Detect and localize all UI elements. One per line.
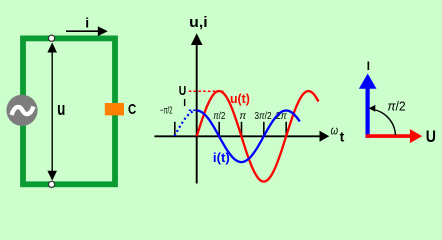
svg-text:π/2: π/2 (387, 99, 405, 114)
tick pi (241, 122, 243, 137)
svg-text:π/2: π/2 (213, 111, 226, 122)
node top (49, 35, 55, 41)
curve i(t) blue solid (197, 111, 300, 163)
svg-text:i: i (85, 15, 89, 31)
svg-text:C: C (128, 101, 136, 118)
svg-text:U: U (426, 127, 436, 146)
graph x-axis (154, 131, 329, 142)
svg-text:I: I (367, 61, 370, 73)
svg-text:u: u (57, 98, 65, 119)
dashed level line I (blue) (189, 109, 197, 111)
svg-text:π: π (239, 111, 246, 122)
tick 2pi (285, 122, 287, 137)
voltage arrow u (double-headed) (47, 43, 57, 181)
tick 3pi/2 (263, 122, 265, 137)
svg-text:i(t): i(t) (213, 150, 230, 165)
dashed level line U (red) (189, 90, 224, 92)
svg-text:u(t): u(t) (230, 91, 250, 106)
node bottom (49, 181, 55, 187)
svg-text:3π/2: 3π/2 (254, 111, 272, 122)
svg-text:U: U (179, 84, 187, 98)
svg-text:−π/2: −π/2 (160, 105, 173, 116)
phasor I (blue vertical arrow) (359, 74, 377, 139)
curve u(t) red (197, 91, 319, 182)
current arrow i (66, 26, 108, 36)
phasor U (red horizontal arrow) (366, 129, 422, 143)
svg-text:I: I (183, 98, 186, 109)
wire circuit loop (23, 38, 115, 184)
source G1 (AC generator) (6, 95, 37, 126)
angle arc pi/2 (369, 105, 396, 135)
svg-text:ω: ω (331, 122, 338, 137)
svg-text:t: t (340, 129, 345, 145)
tick pi/2 (218, 122, 220, 137)
capacitor C (105, 103, 124, 115)
curve i(t) blue dotted (negative phase) (175, 111, 196, 136)
svg-text:u,i: u,i (189, 15, 207, 31)
graph y-axis (191, 33, 203, 183)
tick -pi/2 (174, 122, 176, 137)
